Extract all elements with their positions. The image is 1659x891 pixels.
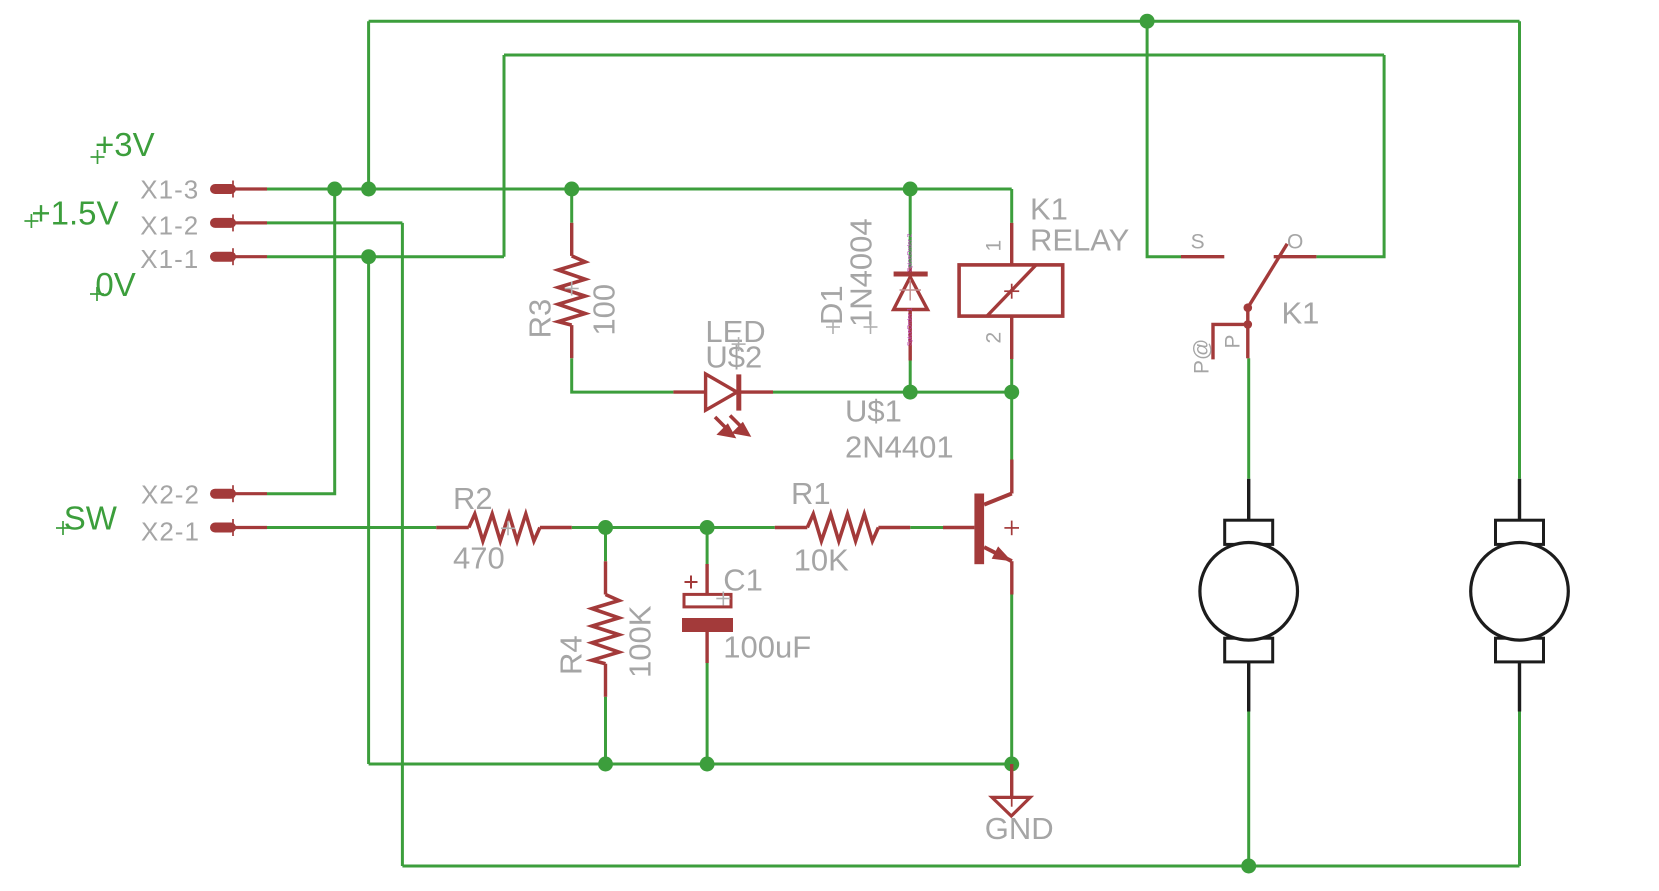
diode D1: [894, 268, 928, 361]
wire bottom motor rail: [402, 865, 1519, 868]
svg-text:X1-3: X1-3: [140, 175, 199, 205]
junction C1 top on base row: [700, 520, 715, 535]
wire LED row right: [773, 391, 1012, 394]
junction R4 bottom on GND rail: [598, 757, 613, 772]
svg-text:SW: SW: [64, 500, 118, 537]
relay contact lever K1: [1244, 244, 1288, 329]
svg-text:GND: GND: [985, 811, 1054, 846]
junction +3V riser on row: [361, 182, 376, 197]
wire 0V riser up: [503, 55, 506, 257]
svg-text:X2-1: X2-1: [141, 516, 200, 546]
motor M2: [1471, 479, 1569, 712]
svg-text:K1: K1: [1282, 295, 1320, 330]
junction GND riser on X1-1 row: [361, 249, 376, 264]
wire R3 bottom to LED row: [572, 358, 674, 392]
junction R4 top on base row: [598, 520, 613, 535]
svg-text:10K: 10K: [794, 543, 849, 578]
wire X2-1 base row left: [267, 526, 436, 529]
junction top rail / S riser: [1140, 14, 1155, 29]
svg-text:1: 1: [983, 240, 1006, 252]
svg-text:1N4004: 1N4004: [844, 218, 879, 327]
svg-text:R3: R3: [523, 299, 558, 339]
svg-text:P@: P@: [1191, 339, 1214, 374]
svg-text:O: O: [1287, 231, 1303, 254]
wire relay pin1: [1010, 189, 1013, 223]
relay contact O: [1274, 255, 1317, 258]
svg-text:C1: C1: [723, 563, 763, 598]
wire 0V upper rail: [504, 54, 1384, 57]
svg-text:100: 100: [587, 284, 622, 336]
wire base row mid: [572, 526, 775, 529]
node +1.5V origin cross: [24, 214, 38, 228]
pin X2-2: [215, 485, 267, 502]
wire M2 bottom: [1518, 712, 1521, 867]
wire C1 top: [706, 528, 709, 565]
junction emitter on GND rail: [1004, 757, 1019, 772]
svg-text:X2-2: X2-2: [141, 480, 200, 510]
origin cross D1 symbol: [900, 280, 922, 301]
svg-text:S: S: [1191, 230, 1205, 253]
wire switch pole to motor M1: [1247, 358, 1250, 479]
wire X1-2 +1.5V row: [267, 221, 402, 224]
wire R4 top: [604, 528, 607, 562]
capacitor C1: [682, 564, 733, 663]
wire X1-1 0V row: [267, 255, 504, 258]
transistor U$1 2N4401: [943, 460, 1019, 595]
svg-text:X1-2: X1-2: [140, 211, 199, 241]
svg-text:2N4401: 2N4401: [845, 430, 954, 465]
wire D1 bottom: [909, 361, 912, 393]
relay contact P arm: [1213, 324, 1248, 359]
wire +3V top rail: [369, 20, 1520, 23]
wire 0V to contact O: [1316, 55, 1384, 257]
svg-text:2: 2: [983, 332, 1006, 344]
origin cross D1: [826, 320, 840, 334]
relay contact pole lead: [1246, 324, 1249, 358]
wire relay pin2 to collector: [1010, 359, 1013, 460]
pin X2-1: [215, 519, 267, 536]
wire R3 top: [570, 189, 573, 223]
resistor R3: [558, 223, 585, 358]
svg-text:0V: 0V: [95, 266, 135, 303]
svg-text:U$1: U$1: [845, 394, 902, 429]
wire emitter to GND rail: [1010, 595, 1013, 765]
junction D1 top: [903, 182, 918, 197]
svg-text:470: 470: [453, 541, 505, 576]
wire GND riser: [367, 257, 370, 764]
wire riser to relay contact S: [1147, 21, 1181, 257]
pin X1-1: [215, 248, 267, 265]
wire C1 bottom: [706, 663, 709, 764]
svg-text:R1: R1: [791, 476, 831, 511]
svg-text:P: P: [1222, 334, 1245, 348]
resistor R4: [592, 561, 619, 697]
pin X1-3: [215, 181, 267, 198]
wire base row right: [910, 526, 943, 529]
svg-text:K1: K1: [1030, 192, 1068, 227]
svg-text:R2: R2: [453, 481, 493, 516]
origin cross LED: [732, 337, 746, 351]
svg-text:+1.5V: +1.5V: [31, 194, 118, 231]
LED U$2: [673, 374, 773, 438]
relay coil K1: [959, 223, 1063, 359]
wire +3V left riser: [367, 21, 370, 189]
junction R3 top: [564, 182, 579, 197]
svg-text:R4: R4: [554, 635, 589, 675]
svg-text:X1-1: X1-1: [140, 244, 199, 274]
node 0V origin cross: [90, 287, 104, 301]
junction X2-2 riser on +3V row: [327, 182, 342, 197]
resistor R2: [436, 514, 571, 541]
wire +1.5V riser down: [401, 223, 404, 866]
svg-text:SpiceOrder 2: SpiceOrder 2: [907, 233, 914, 272]
svg-text:100uF: 100uF: [723, 630, 811, 665]
svg-text:RELAY: RELAY: [1030, 223, 1129, 258]
wire M1 bottom: [1247, 712, 1250, 867]
node SW origin cross: [56, 521, 70, 535]
node +3V origin cross: [91, 150, 105, 164]
svg-text:100K: 100K: [623, 605, 658, 678]
wire D1 top: [909, 189, 912, 268]
wire X2-2 to +3V: [267, 189, 335, 494]
ground GND: [992, 764, 1030, 816]
origin cross C1: [716, 592, 730, 606]
motor M1: [1200, 479, 1298, 712]
wire GND rail: [369, 763, 1012, 766]
origin cross R3: [565, 282, 579, 296]
origin cross 1N4004: [864, 320, 878, 334]
origin cross R2: [501, 521, 515, 535]
junction relay pin2 on LED row: [1004, 385, 1019, 400]
resistor R1: [775, 514, 910, 541]
wire X1-3 +3V row: [267, 188, 1012, 191]
junction D1 bottom on LED row: [903, 385, 918, 400]
junction C1 bottom on GND rail: [700, 757, 715, 772]
wire R4 bottom: [604, 697, 607, 764]
svg-text:SpiceOrder 1: SpiceOrder 1: [907, 307, 914, 346]
wire M2 riser from top rail: [1518, 21, 1521, 479]
junction M1 on bottom rail: [1241, 859, 1256, 874]
relay contact S: [1181, 255, 1224, 258]
pin X1-2: [215, 214, 267, 231]
